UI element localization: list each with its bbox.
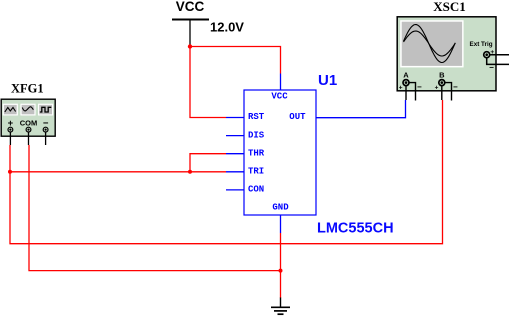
- svg-text:Ext Trig: Ext Trig: [470, 41, 493, 48]
- ground symbol: [271, 298, 290, 315]
- junction at XFG1 plus branch: [8, 170, 12, 174]
- pin VCC stub (top): [280, 74, 282, 91]
- XSC1 channel A terminal lead: [405, 86, 407, 101]
- wire U1 OUT pin to XSC1 channel A (blue): [316, 100, 406, 118]
- pin THR stub: [226, 153, 244, 155]
- XFG1 triangle-wave button: [3, 104, 17, 115]
- svg-text:−: −: [417, 82, 422, 91]
- wire XFG1 plus terminal to U1 TRI pin: [10, 145, 226, 172]
- svg-text:+: +: [399, 84, 403, 91]
- XSC1 channel B minus lead: [445, 83, 452, 101]
- svg-text:GND: GND: [272, 203, 289, 213]
- wire XFG1 COM terminal to ground net: [29, 145, 281, 271]
- svg-text:XSC1: XSC1: [433, 0, 466, 14]
- pin TRI stub: [226, 171, 244, 173]
- pin DIS stub: [226, 135, 244, 137]
- XFG1 square-wave button: [39, 104, 53, 115]
- XFG1 COM terminal lead: [28, 132, 30, 145]
- XSC1 channel B terminal: [439, 80, 445, 86]
- XSC1 channel A terminal: [403, 80, 409, 86]
- power symbol VCC: [172, 0, 209, 45]
- oscilloscope XSC1: [397, 0, 509, 100]
- svg-text:VCC: VCC: [176, 0, 205, 14]
- XSC1 screen bezel: [400, 20, 463, 67]
- XFG1 plus terminal lead: [9, 132, 11, 145]
- junction VCC node: [188, 44, 192, 48]
- XSC1 Ext Trig minus lead: [487, 58, 509, 65]
- wire VCC node to U1 VCC pin (top): [190, 47, 281, 74]
- svg-text:OUT: OUT: [289, 112, 306, 122]
- svg-text:THR: THR: [248, 148, 265, 158]
- svg-text:+: +: [435, 84, 439, 91]
- svg-text:COM: COM: [20, 118, 38, 127]
- svg-text:VCC: VCC: [271, 92, 288, 102]
- junction TRI node at x=190: [188, 170, 192, 174]
- XSC1 Ext Trig plus lead: [490, 54, 509, 56]
- XSC1 channel A minus lead: [409, 83, 416, 101]
- svg-text:12.0V: 12.0V: [210, 19, 244, 34]
- XSC1 channel B terminal lead: [441, 86, 443, 101]
- wire VCC node to U1 RST pin: [190, 47, 226, 118]
- XFG1 COM terminal: [26, 127, 31, 132]
- wire TRI node to U1 THR pin: [190, 154, 226, 172]
- op-amp/timer U1 LMC555CH body: [244, 90, 316, 215]
- svg-text:U1: U1: [318, 72, 337, 89]
- svg-text:B: B: [439, 71, 445, 80]
- value label 12.0V: [210, 19, 244, 34]
- svg-text:TRI: TRI: [248, 167, 264, 177]
- wire XFG1 plus branch down and across to XSC1 channel B: [10, 100, 443, 244]
- XSC1 Ext Trig terminal: [484, 52, 490, 58]
- XSC1 body: [397, 17, 496, 91]
- junction ground net node: [279, 269, 283, 273]
- XFG1 body: [1, 99, 55, 136]
- pin CON stub: [226, 189, 244, 191]
- svg-text:LMC555CH: LMC555CH: [317, 220, 394, 236]
- XSC1 trace channel A (large sine): [404, 25, 456, 63]
- function generator XFG1: [1, 81, 55, 145]
- XSC1 screen: [402, 22, 462, 66]
- XFG1 sine-wave button: [21, 104, 35, 115]
- wire U1 GND pin to ground symbol: [280, 233, 282, 298]
- svg-text:−: −: [489, 63, 494, 72]
- XSC1 trace channel B (small sine): [404, 31, 456, 56]
- XFG1 minus terminal lead: [45, 132, 47, 145]
- svg-text:A: A: [403, 71, 409, 80]
- svg-text:XFG1: XFG1: [11, 81, 44, 95]
- XFG1 plus terminal: [8, 127, 13, 132]
- pin RST stub: [226, 117, 244, 119]
- svg-text:DIS: DIS: [248, 130, 265, 140]
- pin GND stub (bottom): [280, 215, 282, 233]
- svg-text:CON: CON: [248, 185, 264, 195]
- svg-text:RST: RST: [248, 112, 265, 122]
- XFG1 minus terminal: [43, 127, 48, 132]
- svg-text:−: −: [453, 82, 458, 91]
